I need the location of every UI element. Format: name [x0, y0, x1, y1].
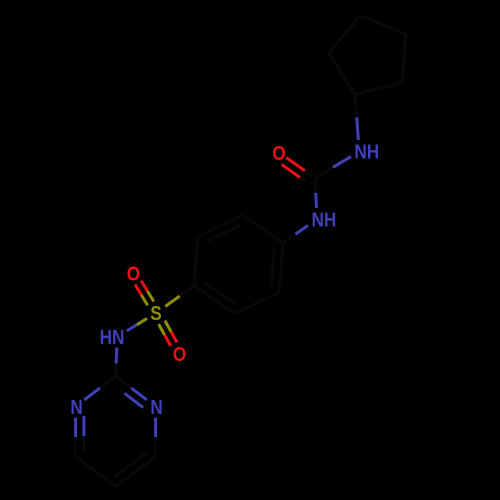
svg-text:HN: HN: [100, 326, 125, 349]
faint carbon skeleton (near-invisible in raw image): [76, 16, 406, 487]
pyrimidine lower carbon bonds: [74, 437, 77, 457]
carbon half of bond N(urea mid) to benzene v1: [283, 234, 296, 243]
svg-text:O: O: [272, 142, 285, 165]
carbon half of bond N(urea top) to cyclopentyl C1: [355, 95, 357, 118]
S=O upper double, O halves: [135, 284, 141, 294]
pyrimidine N1=C6 double main: [74, 418, 77, 438]
svg-text:N: N: [150, 396, 162, 419]
S=O lower double, S halves: [159, 324, 165, 335]
N(urea mid) up to carbonyl C: [314, 193, 318, 208]
svg-text:N: N: [70, 396, 82, 419]
red oxygen half-bonds: [135, 158, 305, 346]
svg-text:NH: NH: [354, 140, 379, 163]
svg-text:NH: NH: [311, 208, 336, 231]
carbon half of bond S to benzene v4: [180, 286, 194, 296]
svg-text:O: O: [173, 343, 186, 366]
label S sulfonyl: [150, 302, 161, 325]
S to N(sulfonamide), S half: [137, 319, 147, 325]
pyrimidine N1=C6 double inner: [82, 416, 85, 436]
carbonyl C half-bonds: [315, 167, 333, 178]
cyclopentyl ring: [329, 53, 355, 95]
N(sulfonamide) down to pyrimidine C2: [115, 348, 119, 364]
olive sulfur half-bonds: [137, 291, 180, 335]
pyrimidine N3 to C2 double inner: [125, 393, 144, 407]
N(urea top) to carbonyl C: [333, 157, 351, 168]
atom labels: [70, 140, 379, 418]
N(sulfonamide) to S: [127, 325, 137, 331]
pyrimidine N3-C4 single: [154, 418, 157, 438]
svg-text:S: S: [150, 302, 161, 325]
pyrimidine C2 half-bonds: [114, 364, 118, 377]
urea C=O double, O halves: [286, 158, 304, 171]
pyrimidine N3 to C2 double main: [131, 388, 147, 400]
pyrimidine N1 to C2 single: [84, 388, 100, 400]
blue nitrogen half-bonds: [76, 117, 359, 437]
N(urea top) up to cyclopentyl: [357, 117, 359, 140]
benzene ring: [242, 215, 283, 243]
S=O upper double, S halves: [141, 295, 147, 305]
S to benzene v4, S half: [165, 296, 179, 306]
S=O lower double, O halves: [165, 335, 171, 346]
svg-text:O: O: [127, 262, 140, 285]
N(urea mid) down to benzene v1: [296, 225, 309, 234]
